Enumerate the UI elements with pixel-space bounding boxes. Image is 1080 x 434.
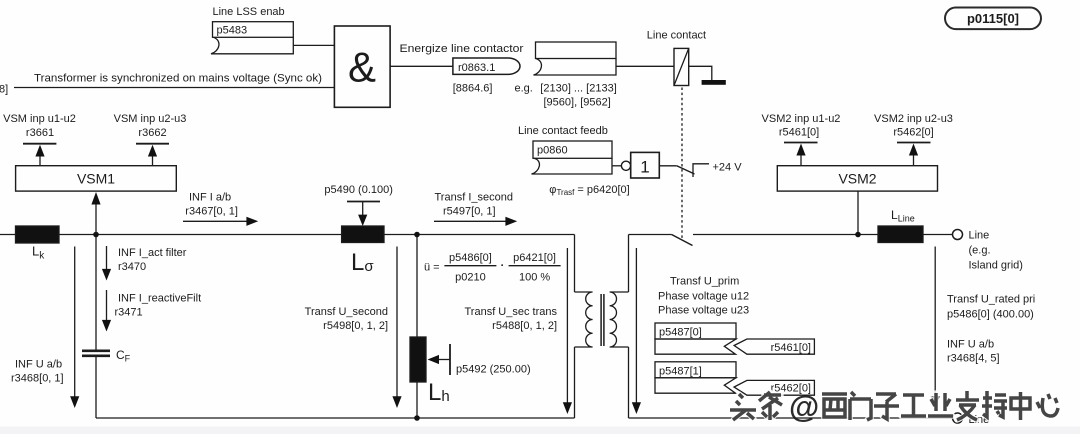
svg-text:Energize line contactor: Energize line contactor [400, 43, 524, 55]
glyph chi [982, 391, 1007, 417]
svg-text:Transf U_sec trans: Transf U_sec trans [464, 306, 557, 318]
glyph tiao [759, 392, 782, 420]
svg-text:+24 V: +24 V [713, 161, 743, 173]
wire AND out [390, 65, 453, 67]
svg-text:Transf U_second: Transf U_second [305, 306, 388, 318]
binector output r0863.1 [453, 58, 520, 74]
glyph men [850, 392, 871, 420]
arrow Transf U_prim [635, 248, 637, 404]
glyph gong [901, 395, 926, 416]
glyph zhong [1011, 392, 1030, 420]
svg-text:Phase voltage u23: Phase voltage u23 [658, 304, 749, 316]
svg-text:Island grid): Island grid) [969, 259, 1023, 271]
arrow Transf U_rated pri [934, 247, 936, 398]
wire right box top to switch [629, 234, 672, 236]
wire LLine to terminal [923, 234, 952, 236]
svg-text:p5487[0]: p5487[0] [659, 327, 702, 339]
arrowhead p5490 [358, 215, 367, 226]
svg-text:@: @ [789, 389, 819, 424]
svg-text:Phase voltage u12: Phase voltage u12 [658, 290, 749, 302]
arrowhead INF I_reactiveFilt [102, 320, 111, 332]
arrowhead Transf U_rated pri [931, 396, 940, 408]
inductor Lk [16, 226, 60, 243]
left box right edge upper [574, 235, 576, 293]
tap bar p5492 [449, 344, 451, 375]
glyph zhi [956, 391, 979, 420]
svg-text:Line contact: Line contact [647, 30, 706, 42]
svg-text:VSM1: VSM1 [77, 171, 115, 187]
bottom band [0, 427, 1080, 434]
svg-text:r5488[0, 1, 2]: r5488[0, 1, 2] [492, 320, 557, 332]
connector input p5487[1] [655, 362, 736, 378]
svg-text:INF I a/b: INF I a/b [189, 192, 231, 204]
svg-text:r0863.1: r0863.1 [458, 62, 495, 74]
transformer core [600, 294, 602, 346]
inductor Lsigma [342, 226, 384, 243]
svg-text:VSM inp u1-u2: VSM inp u1-u2 [3, 113, 76, 125]
fraction line 1 [444, 265, 496, 267]
glyph zi [874, 394, 899, 419]
wire p0860 to inverter [612, 165, 621, 167]
wire capacitor branch upper [95, 235, 97, 351]
node dot Lh bottom [414, 415, 420, 421]
switch fixed contact [693, 164, 709, 177]
wire capacitor branch lower [95, 356, 97, 418]
svg-text:p5490 (0.100): p5490 (0.100) [324, 184, 393, 196]
wire arrow VSM2 to r5462 [913, 153, 915, 166]
svg-text:VSM inp u2-u3: VSM inp u2-u3 [114, 113, 187, 125]
arrowhead p5492 [428, 355, 440, 364]
svg-text:p6421[0]: p6421[0] [513, 252, 556, 264]
svg-text:Line: Line [969, 229, 990, 241]
wire arrow main to VSM1 [95, 203, 97, 235]
arrow Transf U_sec trans [566, 248, 568, 404]
arrowhead VSM1 feed [91, 192, 100, 205]
capacitor CF plates [82, 349, 110, 352]
svg-text:INF I_act filter: INF I_act filter [118, 247, 187, 259]
svg-text:Transf U_rated pri: Transf U_rated pri [947, 293, 1035, 305]
connector tag r5461[0] [734, 339, 814, 354]
svg-text:r3661: r3661 [26, 127, 54, 139]
tap bar p5490 [347, 201, 380, 203]
binector output connector e.g. [536, 42, 617, 59]
svg-text:p0860: p0860 [537, 144, 568, 156]
wire bottom right box [629, 417, 953, 419]
svg-text:r3468[4, 5]: r3468[4, 5] [947, 352, 1000, 364]
terminal circle Line bottom [953, 413, 963, 423]
svg-text:p5486[0]: p5486[0] [449, 252, 492, 264]
svg-text:(e.g.: (e.g. [969, 244, 991, 256]
connector bar r5461 [784, 142, 818, 144]
arrowhead r5461 [796, 144, 805, 156]
block VSM1 [16, 166, 177, 191]
svg-text:r3662: r3662 [138, 127, 166, 139]
connector tag r5462[0] [734, 380, 814, 395]
right box left edge upper [628, 235, 630, 293]
arrowhead Transf I_second [505, 217, 517, 226]
inductor LLine [878, 226, 923, 243]
wire sync ok [14, 87, 334, 89]
watermark text strokes [730, 391, 1058, 420]
svg-text:INF U a/b: INF U a/b [947, 338, 994, 350]
connector bar r3662 [136, 143, 169, 145]
svg-text:r5497[0, 1]: r5497[0, 1] [443, 206, 496, 218]
svg-text:r3471: r3471 [115, 306, 143, 318]
svg-text:r3470: r3470 [118, 261, 146, 273]
glyph xin [1037, 394, 1058, 416]
svg-text:INF I_reactiveFilt: INF I_reactiveFilt [118, 292, 201, 304]
svg-text:Line LSS enab: Line LSS enab [213, 6, 285, 18]
relay coil Line contact [674, 48, 689, 85]
svg-text:VSM2: VSM2 [838, 171, 876, 187]
svg-text:r5461[0]: r5461[0] [779, 127, 819, 139]
svg-text:p0115[0]: p0115[0] [967, 11, 1019, 26]
svg-text:p5483: p5483 [217, 25, 248, 37]
svg-text:e.g.: e.g. [515, 83, 533, 95]
svg-text:Transf I_second: Transf I_second [435, 192, 513, 204]
arrow INF I a/b [183, 220, 249, 222]
svg-text:INF U a/b: INF U a/b [15, 359, 62, 371]
arrowhead INF U a/b left [70, 396, 79, 408]
wire arrow VSM1 to r3661 [39, 154, 41, 166]
svg-text:1: 1 [640, 158, 649, 177]
ground [702, 80, 726, 85]
svg-text:Transf U_prim: Transf U_prim [670, 275, 739, 287]
svg-text:VSM2 inp u1-u2: VSM2 inp u1-u2 [762, 113, 841, 125]
transformer primary winding [575, 292, 593, 347]
tap arrow p5490 [362, 202, 364, 217]
svg-text:[2130] ... [2133]: [2130] ... [2133] [540, 83, 616, 95]
node dot VSM2 [855, 232, 861, 238]
transformer secondary winding [610, 292, 629, 347]
arrowhead r3662 [148, 145, 157, 157]
fraction line 2 [509, 265, 561, 267]
arrowhead Transf U_second [392, 396, 401, 408]
arrow INF I_reactiveFilt [106, 290, 108, 321]
wire p5483 to AND [293, 44, 334, 46]
op AND gate U1 [334, 26, 390, 107]
svg-text:VSM2 inp u2-u3: VSM2 inp u2-u3 [874, 113, 953, 125]
left box right edge lower [574, 347, 576, 418]
wire VSM2 drop [857, 191, 859, 235]
connector bar r5462 [897, 142, 931, 144]
node dot Lk/VSM1 [93, 232, 99, 238]
arrowhead INF I_act filter [102, 269, 111, 281]
wire relay to ground [689, 66, 712, 80]
arrowhead Transf U_sec trans [563, 402, 572, 414]
svg-text:p5492 (250.00): p5492 (250.00) [456, 363, 531, 375]
arrow Transf U_second [396, 247, 398, 398]
svg-text:ü =: ü = [424, 261, 440, 273]
wire switch to line terminal [693, 234, 878, 236]
arrowhead r5462 [909, 144, 918, 156]
svg-text:100 %: 100 % [519, 271, 550, 283]
wire Lh branch vertical [416, 235, 418, 419]
svg-text:p0210: p0210 [455, 271, 486, 283]
block VSM2 [777, 166, 937, 191]
binector input p0860 [533, 141, 612, 158]
connector input p5487[0] [655, 323, 736, 339]
glyph tou [730, 394, 756, 420]
switch blade +24V [677, 166, 695, 174]
svg-text:r3468[0, 1]: r3468[0, 1] [11, 373, 64, 385]
svg-text:·: · [501, 260, 505, 272]
inductor Lh [410, 337, 426, 382]
inverter gate 1 [631, 152, 660, 178]
rounded frame p0115[0] [945, 8, 1041, 30]
wire main line left [0, 234, 342, 236]
svg-text:r5462[0]: r5462[0] [893, 127, 933, 139]
glyph ye [928, 393, 953, 416]
node dot Lh top [414, 232, 420, 238]
svg-text:&: & [348, 44, 376, 91]
wire bottom left box [96, 417, 575, 419]
glyph xi [822, 394, 847, 417]
svg-text:Line contact feedb: Line contact feedb [518, 125, 608, 137]
svg-text:r5498[0, 1, 2]: r5498[0, 1, 2] [323, 320, 388, 332]
arrowhead INF I a/b [246, 217, 258, 226]
svg-text:p5487[1]: p5487[1] [659, 366, 702, 378]
arrowhead r3661 [35, 145, 44, 157]
arrow INF I_act filter [106, 246, 108, 270]
right box left edge lower [628, 347, 630, 418]
svg-text:p5486[0] (400.00): p5486[0] (400.00) [947, 308, 1034, 320]
terminal circle Line top [953, 230, 963, 240]
switch blade line contactor [672, 235, 693, 246]
arrow INF U a/b left [74, 247, 76, 398]
svg-text:[9560], [9562]: [9560], [9562] [544, 96, 611, 108]
svg-text:[8864.6]: [8864.6] [453, 83, 493, 95]
connector bar r3661 [23, 143, 56, 145]
dashed link relay to switch [681, 88, 683, 241]
wire arrow VSM2 to r5461 [800, 153, 802, 166]
wire inverter to switch [659, 165, 676, 167]
arrow Transf I_second [434, 220, 508, 222]
wire connector to relay [616, 65, 674, 67]
inverter bubble [621, 161, 630, 170]
binector input p5483 [213, 22, 294, 38]
tap arrow p5492 [437, 359, 450, 361]
svg-text:r5461[0]: r5461[0] [771, 342, 811, 354]
svg-text:8]: 8] [0, 83, 8, 95]
wire arrow VSM1 to r3662 [152, 154, 154, 166]
arrowhead Transf U_prim [632, 402, 641, 414]
watermark casing [730, 391, 1058, 420]
svg-text:r3467[0, 1]: r3467[0, 1] [185, 206, 238, 218]
svg-text:Transformer is synchronized on: Transformer is synchronized on mains vol… [34, 72, 322, 84]
wire main line Lsigma to left box corner [384, 234, 575, 236]
